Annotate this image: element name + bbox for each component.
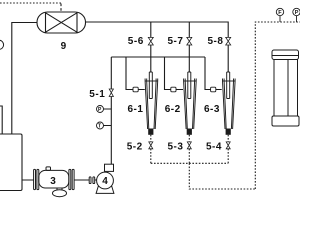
svg-text:6-2: 6-2 — [165, 104, 181, 115]
svg-text:3: 3 — [50, 176, 56, 187]
svg-text:6-1: 6-1 — [128, 104, 144, 115]
svg-text:5-3: 5-3 — [168, 141, 184, 152]
svg-text:5-6: 5-6 — [128, 36, 144, 47]
svg-text:5-7: 5-7 — [168, 36, 184, 47]
svg-text:6-3: 6-3 — [204, 104, 220, 115]
svg-text:4: 4 — [102, 176, 108, 187]
svg-text:5-4: 5-4 — [206, 141, 222, 152]
svg-text:T: T — [98, 124, 101, 130]
svg-text:9: 9 — [61, 41, 67, 52]
svg-text:5-8: 5-8 — [208, 36, 224, 47]
svg-text:5-2: 5-2 — [127, 141, 143, 152]
svg-text:5-1: 5-1 — [89, 89, 105, 100]
svg-text:P: P — [295, 10, 299, 16]
